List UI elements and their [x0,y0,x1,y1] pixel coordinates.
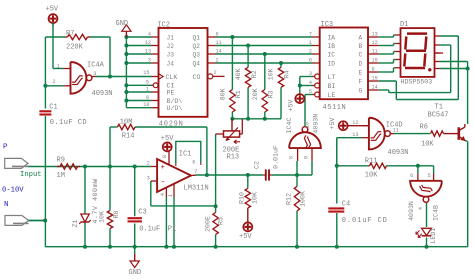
svg-text:10K: 10K [251,192,258,204]
svg-text:4029N: 4029N [159,120,184,128]
svg-text:+5V: +5V [287,100,294,112]
svg-text:IC2: IC2 [157,21,170,29]
svg-text:G: G [359,87,363,94]
svg-text:7: 7 [194,169,197,175]
svg-text:B/D\: B/D\ [167,98,183,105]
svg-text:R12: R12 [285,193,292,205]
svg-text:J1: J1 [167,34,175,41]
svg-text:R4: R4 [284,70,291,78]
svg-text:R14: R14 [122,132,135,140]
svg-text:C3: C3 [138,208,146,216]
svg-text:+5V: +5V [239,233,252,241]
svg-text:R3: R3 [267,90,274,98]
svg-text:IC4D: IC4D [386,121,403,129]
svg-text:4511N: 4511N [323,104,347,112]
svg-text:R2: R2 [251,70,258,78]
svg-text:10: 10 [304,122,310,128]
svg-text:R9: R9 [57,156,65,164]
svg-text:1: 1 [168,194,174,197]
svg-text:IC1: IC1 [179,150,192,158]
svg-text:U/D\: U/D\ [167,105,183,112]
svg-text:N: N [4,201,9,209]
svg-text:10K: 10K [421,141,434,149]
svg-text:10K: 10K [268,68,275,80]
svg-text:0.1uF CD: 0.1uF CD [50,119,87,127]
svg-text:BC547: BC547 [428,111,449,119]
svg-text:6: 6 [309,57,312,63]
svg-text:4093N: 4093N [408,201,415,221]
svg-text:3: 3 [93,71,96,77]
svg-text:R7: R7 [66,30,74,38]
svg-text:0.01uF: 0.01uF [273,145,280,169]
svg-text:D: D [359,60,363,67]
svg-text:E: E [359,69,363,76]
svg-text:IC4B: IC4B [432,205,439,221]
svg-text:+5V: +5V [46,6,59,14]
svg-text:10: 10 [372,57,378,63]
svg-text:LM311N: LM311N [184,184,209,192]
svg-text:4: 4 [148,31,151,37]
svg-text:9: 9 [146,95,149,101]
svg-text:D1: D1 [400,21,408,29]
svg-text:IB: IB [328,43,336,50]
svg-text:+: + [161,164,166,172]
svg-text:3: 3 [309,71,312,77]
svg-text:12: 12 [372,40,378,46]
svg-text:9: 9 [303,156,309,159]
svg-text:100K: 100K [299,191,306,207]
svg-text:1: 1 [146,86,149,92]
svg-text:220K: 220K [66,44,84,52]
svg-text:11: 11 [216,40,222,46]
svg-text:Q4: Q4 [193,60,201,67]
svg-text:IC4C: IC4C [286,118,293,134]
svg-text:1: 1 [309,40,312,46]
svg-text:2: 2 [214,70,217,76]
svg-text:5: 5 [146,79,149,85]
svg-text:14: 14 [216,48,222,54]
svg-text:Q3: Q3 [193,51,201,58]
svg-text:6: 6 [192,159,195,165]
svg-text:15: 15 [143,70,149,76]
svg-text:4: 4 [418,207,424,210]
svg-text:LE: LE [328,92,336,99]
svg-text:4: 4 [309,80,312,86]
svg-text:10: 10 [143,102,149,108]
svg-text:3: 3 [148,57,151,63]
svg-text:J3: J3 [167,51,175,58]
svg-text:J2: J2 [167,43,175,50]
svg-text:40K: 40K [235,68,242,80]
svg-text:A: A [359,34,363,41]
svg-text:R8: R8 [113,211,120,219]
svg-text:+5V: +5V [329,118,336,130]
svg-text:GND: GND [116,20,129,28]
svg-text:B: B [359,43,363,50]
svg-text:10K: 10K [99,211,106,223]
svg-text:Input: Input [20,171,42,179]
svg-text:1: 1 [57,63,60,69]
svg-text:3: 3 [147,175,150,181]
svg-text:Q2: Q2 [193,43,201,50]
svg-text:BI: BI [328,83,336,90]
svg-text:10M: 10M [120,118,133,126]
svg-text:14: 14 [372,84,378,90]
svg-text:C: C [359,51,363,58]
svg-text:IC4A: IC4A [87,62,105,70]
svg-text:C4: C4 [342,200,350,208]
svg-text:C2: C2 [254,161,261,169]
svg-text:LED1: LED1 [430,228,437,244]
svg-text:7: 7 [309,31,312,37]
svg-text:12: 12 [145,40,151,46]
svg-text:200E: 200E [204,216,211,232]
svg-text:8: 8 [162,155,168,158]
svg-text:20K: 20K [252,88,259,100]
svg-text:13: 13 [145,48,151,54]
svg-text:5: 5 [428,173,431,179]
svg-text:R1: R1 [235,90,242,98]
svg-text:9: 9 [372,66,375,72]
svg-text:HDSP5503: HDSP5503 [401,78,433,85]
svg-text:4093N: 4093N [92,90,113,98]
svg-text:CO: CO [193,74,201,81]
svg-text:P: P [3,144,8,152]
svg-text:1M: 1M [57,172,65,180]
svg-text:LT: LT [328,74,336,81]
svg-text:-: - [161,177,166,187]
svg-text:CLK: CLK [166,74,178,81]
svg-text:2: 2 [309,48,312,54]
svg-text:12: 12 [352,120,358,126]
svg-text:PE: PE [167,90,175,97]
svg-text:R6: R6 [420,124,428,132]
svg-text:80K: 80K [220,88,227,100]
svg-text:4093N: 4093N [313,114,320,134]
svg-text:2: 2 [216,57,219,63]
svg-text:6: 6 [410,173,413,179]
svg-text:ID: ID [328,60,336,67]
svg-text:6: 6 [216,31,219,37]
svg-text:13: 13 [352,132,358,138]
svg-text:J4: J4 [167,60,175,67]
svg-text:2: 2 [52,79,55,85]
svg-text:IA: IA [328,34,336,41]
svg-text:4093N: 4093N [388,149,409,157]
svg-text:F: F [359,78,363,85]
svg-text:0.1uF: 0.1uF [139,225,160,233]
svg-text:R13: R13 [227,153,240,161]
svg-text:T1: T1 [435,103,443,111]
svg-text:R10: R10 [238,192,245,204]
svg-text:Z1: Z1 [72,220,79,228]
svg-text:11: 11 [372,48,378,54]
svg-text:2: 2 [147,161,150,167]
svg-text:C1: C1 [49,103,57,111]
svg-text:0.01uF CD: 0.01uF CD [342,217,388,225]
svg-text:R11: R11 [365,157,378,165]
svg-text:5: 5 [309,89,312,95]
svg-text:Q1: Q1 [193,34,201,41]
svg-text:R5: R5 [218,217,225,225]
svg-text:13: 13 [372,31,378,37]
svg-text:P1: P1 [168,225,176,233]
svg-text:10K: 10K [365,171,378,179]
svg-text:IC3: IC3 [321,21,334,29]
svg-text:8: 8 [289,156,295,159]
svg-text:4: 4 [160,193,166,196]
svg-text:15: 15 [372,75,378,81]
svg-text:0-10V: 0-10V [2,186,24,194]
svg-text:GND: GND [129,269,142,277]
svg-text:IC: IC [328,51,336,58]
svg-text:+5V: +5V [161,135,174,143]
